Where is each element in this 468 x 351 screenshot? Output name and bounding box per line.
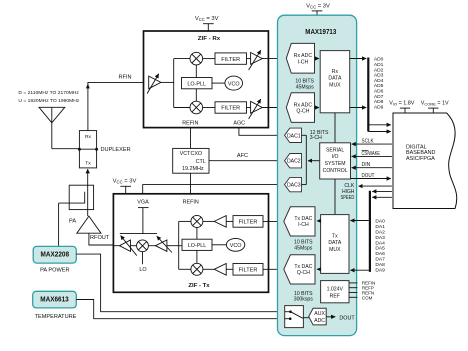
- transistor-amp PA: [69, 216, 101, 233]
- svg-text:45Msps: 45Msps: [296, 84, 314, 90]
- VCO (Rx): [225, 76, 243, 90]
- svg-text:Tx: Tx: [85, 161, 91, 167]
- svg-text:PA POWER: PA POWER: [40, 268, 69, 274]
- node antenna junction dot: [78, 148, 81, 151]
- svg-text:MUX: MUX: [329, 247, 341, 253]
- wire AUX ADC to DOUT: [326, 316, 335, 318]
- wire LO-PLL to Tx Q mixer: [196, 250, 198, 263]
- svg-text:U = 1920MHz TO 1990MHz: U = 1920MHz TO 1990MHz: [18, 98, 79, 104]
- svg-text:ADC: ADC: [314, 318, 325, 324]
- wire filter to out VGA I: [247, 58, 251, 60]
- power VCORE: [421, 101, 449, 113]
- wire DA bus to Tx mux upper: [350, 220, 368, 222]
- digital baseband ASIC/FPGA: [393, 113, 457, 209]
- svg-text:REF: REF: [330, 293, 340, 299]
- ZIF-Rx block: [144, 31, 269, 128]
- amplifier Tx VGA2: [156, 240, 167, 251]
- wire serial control to DAC bus: [308, 160, 320, 162]
- svg-text:19.2MHz: 19.2MHz: [182, 166, 204, 172]
- wire antenna to duplexer: [52, 148, 80, 150]
- svg-text:DUPLEXER: DUPLEXER: [101, 147, 131, 153]
- wire AFC DAC2 to VCTCXO CTL: [209, 160, 285, 162]
- svg-text:DA7: DA7: [375, 257, 385, 263]
- svg-text:AD6: AD6: [374, 89, 384, 95]
- svg-text:FILTER: FILTER: [239, 220, 258, 226]
- svg-text:DATA: DATA: [328, 76, 342, 82]
- wire VCTCXO to ZIF-Tx REFIN: [190, 173, 192, 194]
- wire DAC1 stub: [302, 134, 307, 136]
- wire Q mixer to filter: [203, 107, 215, 109]
- wire DAC bus vertical: [305, 135, 307, 184]
- filter Tx I: [233, 216, 263, 228]
- svg-text:CS/WAKE: CS/WAKE: [362, 151, 381, 157]
- amplifier output VGA Q: [249, 99, 263, 119]
- wire splitter to Q mixer: [174, 107, 190, 109]
- wire DAC3 to ZIF-Tx VGA: [143, 185, 285, 194]
- svg-text:DA8: DA8: [375, 262, 385, 268]
- mixer Tx I: [191, 215, 203, 227]
- svg-text:SYSTEM: SYSTEM: [325, 161, 346, 167]
- amplifier Tx I: [214, 216, 226, 228]
- wire filter to out VGA Q: [247, 107, 251, 109]
- svg-text:LO-PLL: LO-PLL: [187, 81, 206, 87]
- svg-text:Rx ADC: Rx ADC: [294, 53, 313, 59]
- svg-text:VCORE = 1V: VCORE = 1V: [421, 101, 449, 107]
- wire baseband to DA bus lower: [372, 196, 392, 198]
- svg-text:VCC = 3V: VCC = 3V: [195, 16, 219, 22]
- svg-text:FILTER: FILTER: [221, 106, 240, 112]
- svg-text:AUX: AUX: [314, 311, 325, 317]
- wire VGA1 to Tx mixer: [131, 245, 137, 247]
- wire VGA2 gain arrow: [157, 236, 172, 252]
- svg-text:AD9: AD9: [374, 104, 384, 110]
- wire CLK high speed: [359, 185, 392, 187]
- svg-text:DA1: DA1: [375, 224, 385, 230]
- svg-text:CTL: CTL: [196, 159, 206, 165]
- wire LO-PLL to Q mixer: [195, 89, 197, 101]
- wire amp to filter Tx I: [226, 220, 233, 222]
- svg-text:DAC2: DAC2: [287, 159, 301, 165]
- svg-text:VCTCXO: VCTCXO: [180, 151, 202, 157]
- svg-text:Tx DAC: Tx DAC: [294, 264, 312, 270]
- svg-text:DAC3: DAC3: [287, 183, 301, 189]
- svg-text:AFC: AFC: [237, 153, 248, 159]
- AD data bus: [367, 58, 369, 132]
- svg-text:AD3: AD3: [374, 73, 384, 79]
- svg-text:PA: PA: [69, 219, 76, 225]
- wire VGA2 to combiner: [167, 245, 182, 247]
- svg-text:FILTER: FILTER: [239, 267, 258, 273]
- wire DIN: [352, 167, 392, 169]
- svg-text:DA9: DA9: [375, 268, 385, 274]
- LO-PLL (Rx): [182, 78, 213, 89]
- MAX6613: [33, 291, 77, 320]
- wire Rx ADC Q to mux: [315, 107, 320, 109]
- mixer Rx I: [190, 52, 203, 65]
- wire MAX2208 to aux switch: [76, 254, 290, 312]
- label 10 BITS 45Msps (Rx): [295, 79, 314, 91]
- DA data bus: [369, 191, 371, 272]
- svg-text:VCC = 3V: VCC = 3V: [306, 3, 330, 9]
- wire PA RFOUT to ZIF-Tx: [89, 233, 120, 245]
- antenna frequency label: [18, 90, 79, 104]
- svg-text:VCO: VCO: [230, 243, 242, 249]
- wire duplexer Rx to RFIN: [86, 82, 149, 130]
- label CLK HIGH SPEED: [341, 183, 355, 201]
- wire coupler to MAX2208: [58, 203, 60, 246]
- wire VGA Q to Rx ADC Q: [262, 107, 286, 109]
- svg-text:RFOUT: RFOUT: [90, 235, 110, 241]
- svg-text:DOUT: DOUT: [339, 315, 355, 321]
- wire VGA1 gain arrow: [121, 236, 137, 256]
- wire Rx mux to serial control: [334, 113, 336, 143]
- wire combiner to I mixer: [179, 220, 191, 222]
- wire AGC to DAC1: [239, 128, 285, 136]
- wire LO-PLL to VCO: [212, 82, 225, 84]
- DAC3: [285, 177, 302, 191]
- DAC1: [285, 128, 302, 142]
- wire mixer to VGA2: [148, 245, 155, 247]
- wire Tx mux to Tx DAC I: [317, 220, 321, 222]
- directional coupler: [59, 185, 94, 209]
- MAX2208: [33, 246, 76, 273]
- wire RFOUT into box: [113, 245, 119, 247]
- svg-text:DAC1: DAC1: [287, 133, 301, 139]
- wire DA bus to Tx mux lower: [350, 269, 368, 271]
- wire MAX6613 to aux switch: [76, 300, 290, 319]
- antenna: [39, 107, 65, 148]
- svg-text:REFIN: REFIN: [182, 121, 198, 127]
- svg-text:FILTER: FILTER: [221, 57, 240, 63]
- label 10 BITS 300ksps: [294, 291, 314, 303]
- svg-text:VGA: VGA: [137, 200, 149, 206]
- svg-text:DATA: DATA: [328, 240, 342, 246]
- svg-text:AD4: AD4: [374, 78, 384, 84]
- wire baseband to DA bus upper: [372, 190, 392, 192]
- svg-text:ASIC/FPGA: ASIC/FPGA: [406, 156, 435, 162]
- svg-text:D = 2110MHz TO 2170MHz: D = 2110MHz TO 2170MHz: [18, 90, 79, 96]
- Rx DATA MUX: [320, 51, 350, 113]
- wire Tx I mixer to amp: [203, 220, 214, 222]
- power VCC ZIF-Tx: [113, 178, 137, 193]
- svg-text:I-CH: I-CH: [298, 222, 309, 228]
- label REFIN REFP REFN COM: [362, 281, 376, 301]
- wire combiner to Q mixer: [179, 268, 191, 270]
- wire Rx ADC I to mux: [315, 58, 320, 60]
- svg-text:MAX6613: MAX6613: [40, 297, 69, 304]
- wire I mixer to filter: [203, 58, 215, 60]
- svg-text:COM: COM: [362, 295, 373, 300]
- mixer Tx upconverter: [137, 240, 149, 252]
- svg-text:DA0: DA0: [375, 218, 385, 224]
- svg-text:1.024V: 1.024V: [327, 287, 344, 293]
- svg-text:Tx DAC: Tx DAC: [294, 216, 312, 222]
- svg-text:ZIF - Tx: ZIF - Tx: [188, 283, 210, 289]
- svg-text:MAX19713: MAX19713: [305, 29, 336, 36]
- wire COM stub: [349, 296, 357, 298]
- svg-text:Rx: Rx: [85, 134, 92, 140]
- 1.024V REF: [321, 281, 349, 303]
- svg-text:VCO: VCO: [228, 81, 240, 87]
- mixer Rx Q: [190, 101, 203, 114]
- svg-text:SERIAL: SERIAL: [326, 147, 344, 153]
- power VCC MAX19713: [306, 3, 330, 15]
- wire PA to duplexer Tx: [87, 169, 89, 216]
- MAX19713 block: [278, 15, 357, 335]
- svg-text:Tx: Tx: [332, 233, 338, 239]
- wire SCLK: [352, 143, 392, 145]
- svg-text:Q-CH: Q-CH: [297, 270, 310, 276]
- svg-text:VCC = 3V: VCC = 3V: [113, 178, 137, 184]
- wire splitter vertical: [173, 59, 175, 108]
- Tx DAC Q-CH: [284, 255, 315, 284]
- svg-text:Rx: Rx: [332, 69, 339, 75]
- wire serial control to Tx mux: [334, 179, 336, 215]
- svg-text:SCLK: SCLK: [362, 139, 375, 145]
- svg-text:DA4: DA4: [375, 240, 385, 246]
- svg-text:AD7: AD7: [374, 94, 384, 100]
- wire REFIN stub: [349, 282, 357, 284]
- wire Tx mux to Tx DAC Q: [317, 268, 321, 270]
- svg-text:AD8: AD8: [374, 99, 384, 105]
- wire VCTCXO to ZIF-Rx REFIN: [190, 128, 192, 149]
- svg-text:RFIN: RFIN: [118, 75, 131, 81]
- svg-text:I/O: I/O: [332, 154, 339, 160]
- filter Rx Q: [215, 102, 247, 113]
- wire AD bus to baseband lower: [368, 131, 391, 133]
- VCO (Tx): [226, 238, 244, 251]
- VCTCXO: [173, 148, 209, 173]
- Tx DAC I-CH: [284, 207, 315, 236]
- svg-text:I-CH: I-CH: [298, 59, 309, 65]
- svg-text:DA6: DA6: [375, 251, 385, 257]
- svg-text:SPEED: SPEED: [341, 195, 355, 201]
- wire DOUT serial: [351, 178, 391, 180]
- wire LO-PLL to I mixer: [195, 65, 197, 78]
- wire LO-PLL to Tx VCO: [212, 244, 226, 246]
- svg-text:VIO = 1.8V: VIO = 1.8V: [389, 101, 414, 107]
- label 10 BITS 45Msps (Tx): [294, 240, 313, 252]
- AUX ADC: [309, 308, 327, 325]
- label AD0-AD9: [374, 57, 384, 111]
- power VCC ZIF-Rx: [195, 16, 219, 31]
- svg-text:Rx ADC: Rx ADC: [294, 102, 313, 108]
- VGA control tee: [138, 208, 149, 234]
- wire VGA control rail: [120, 233, 157, 235]
- svg-text:AD1: AD1: [374, 62, 384, 68]
- svg-text:LO: LO: [139, 267, 146, 273]
- svg-text:AD5: AD5: [374, 83, 384, 89]
- wire mux to AD bus upper: [350, 58, 367, 60]
- svg-text:300ksps: 300ksps: [294, 297, 314, 303]
- label CS/WAKE: [362, 150, 381, 156]
- svg-text:ZIF - Rx: ZIF - Rx: [198, 36, 221, 42]
- wire Tx Q mixer to amp: [203, 268, 214, 270]
- svg-text:DIN: DIN: [362, 162, 371, 168]
- wire switch to AUX ADC: [303, 317, 308, 319]
- svg-text:DA3: DA3: [375, 235, 385, 241]
- wire splitter to I mixer: [174, 58, 190, 60]
- svg-text:DA2: DA2: [375, 229, 385, 235]
- amplifier Tx Q: [214, 264, 226, 276]
- node duplexer right dot: [95, 148, 98, 151]
- wire mux to AD bus lower: [350, 107, 367, 109]
- svg-text:3-CH: 3-CH: [310, 135, 322, 141]
- wire CS/WAKE: [352, 155, 392, 157]
- mixer Tx Q: [191, 263, 203, 275]
- amplifier Tx VGA1: [120, 240, 131, 251]
- svg-text:TEMPERATURE: TEMPERATURE: [35, 314, 77, 320]
- svg-text:AGC: AGC: [233, 121, 245, 127]
- serial I/O system control: [320, 143, 351, 179]
- svg-text:CONTROL: CONTROL: [323, 168, 348, 174]
- wire filter to Tx DAC I: [263, 220, 284, 222]
- wire mixer to LO label: [142, 252, 144, 265]
- svg-text:LO-PLL: LO-PLL: [188, 243, 207, 249]
- wire DAC3 stub: [302, 184, 307, 186]
- amplifier output VGA I: [249, 50, 263, 70]
- wire filter to Tx DAC Q: [263, 268, 284, 270]
- svg-text:REFIN: REFIN: [183, 200, 199, 206]
- LO-PLL (Tx): [182, 239, 212, 250]
- wire REFN stub: [349, 292, 357, 294]
- wire VGA to splitter: [161, 81, 174, 83]
- power VIO: [389, 101, 414, 113]
- aux input switch: [285, 306, 304, 328]
- wire AD bus to baseband upper: [368, 124, 391, 126]
- svg-text:Q-CH: Q-CH: [296, 109, 309, 115]
- wire LO-PLL to Tx I mixer: [196, 227, 198, 239]
- svg-text:DOUT: DOUT: [362, 173, 376, 179]
- svg-text:AD2: AD2: [374, 67, 384, 73]
- svg-text:MUX: MUX: [329, 82, 341, 88]
- svg-text:MAX2208: MAX2208: [41, 251, 70, 258]
- wire amp to filter Tx Q: [226, 268, 233, 270]
- wire REFP stub: [349, 287, 357, 289]
- label DA0-DA9: [375, 218, 385, 273]
- ZIF-Tx block: [113, 194, 268, 292]
- svg-text:DA5: DA5: [375, 246, 385, 252]
- Rx ADC I-CH: [286, 43, 314, 73]
- label 12 BITS 3-CH: [310, 130, 329, 141]
- filter Rx I: [215, 53, 247, 64]
- Rx ADC Q-CH: [286, 93, 314, 123]
- svg-text:45Msps: 45Msps: [294, 246, 312, 252]
- wire combiner vertical: [178, 221, 180, 269]
- svg-text:AD0: AD0: [374, 57, 384, 63]
- DAC2: [285, 154, 302, 168]
- filter Tx Q: [233, 264, 263, 276]
- wire VGA I to Rx ADC I: [262, 58, 286, 60]
- duplexer: [79, 131, 96, 168]
- amplifier input VGA (Rx): [147, 74, 161, 94]
- Tx DATA MUX: [321, 215, 349, 274]
